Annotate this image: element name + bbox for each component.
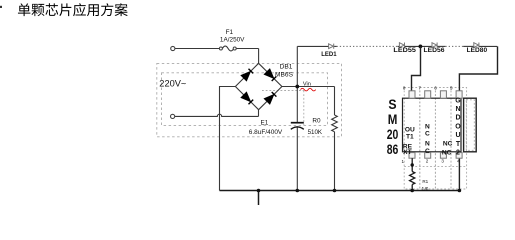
svg-text:R1: R1: [422, 179, 428, 184]
svg-text:R0: R0: [312, 118, 321, 125]
svg-text:N: N: [455, 106, 460, 113]
svg-text:T: T: [456, 141, 461, 148]
svg-text:O: O: [455, 123, 461, 130]
svg-text:6: 6: [434, 86, 437, 91]
svg-text:N: N: [425, 141, 430, 148]
svg-text:G: G: [455, 97, 461, 104]
svg-text:86: 86: [387, 142, 399, 157]
svg-text:LED55: LED55: [393, 47, 416, 54]
svg-text:DB1: DB1: [280, 64, 293, 71]
svg-text:M: M: [388, 112, 398, 127]
svg-text:1A/250V: 1A/250V: [220, 36, 245, 43]
svg-text:XT: XT: [403, 149, 411, 156]
svg-text:U: U: [455, 132, 460, 139]
svg-text:2: 2: [456, 150, 460, 157]
svg-text:5: 5: [450, 86, 453, 91]
svg-text:S: S: [388, 97, 396, 112]
svg-text:6.8uF/400V: 6.8uF/400V: [249, 129, 283, 136]
svg-text:3: 3: [441, 158, 444, 163]
svg-text:N: N: [425, 123, 430, 130]
svg-text:7: 7: [419, 86, 422, 91]
svg-text:LED80: LED80: [467, 47, 488, 54]
svg-text:2: 2: [426, 158, 429, 163]
svg-text:8: 8: [403, 86, 406, 91]
svg-text:LED1: LED1: [321, 52, 337, 58]
svg-text:E1: E1: [260, 119, 268, 126]
svg-text:T1: T1: [406, 133, 414, 140]
svg-text:20: 20: [387, 127, 399, 142]
svg-text:MB6S: MB6S: [275, 71, 294, 78]
svg-text:220V~: 220V~: [159, 79, 186, 89]
svg-text:NC: NC: [443, 141, 453, 148]
svg-text:Vin: Vin: [303, 82, 311, 88]
svg-text:1/6: 1/6: [422, 187, 429, 193]
svg-text:510K: 510K: [308, 129, 323, 136]
svg-text:NC: NC: [442, 149, 452, 156]
svg-text:LED56: LED56: [424, 47, 445, 54]
svg-text:C: C: [425, 130, 430, 137]
svg-text:D: D: [455, 115, 460, 122]
svg-text:F1: F1: [226, 29, 234, 36]
svg-text:C: C: [425, 148, 430, 155]
